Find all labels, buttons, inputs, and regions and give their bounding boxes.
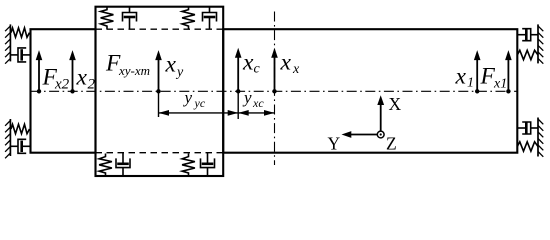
svg-text:Z: Z xyxy=(386,134,397,154)
svg-text:X: X xyxy=(389,94,402,114)
svg-text:c: c xyxy=(254,62,261,77)
svg-text:2: 2 xyxy=(88,76,96,92)
svg-text:y: y xyxy=(183,88,193,107)
svg-text:x1: x1 xyxy=(493,77,507,92)
svg-text:y: y xyxy=(242,88,252,107)
svg-text:xc: xc xyxy=(252,96,264,110)
svg-text:1: 1 xyxy=(467,76,474,91)
svg-text:y: y xyxy=(175,65,184,80)
svg-text:x: x xyxy=(165,52,177,78)
svg-text:Y: Y xyxy=(328,134,341,154)
svg-text:x: x xyxy=(76,64,88,90)
svg-text:yc: yc xyxy=(194,96,206,110)
svg-text:x: x xyxy=(242,50,254,76)
svg-text:x: x xyxy=(280,50,292,76)
svg-text:x2: x2 xyxy=(54,76,70,92)
svg-text:x: x xyxy=(455,64,467,90)
svg-text:xy-xm: xy-xm xyxy=(118,63,150,78)
svg-text:x: x xyxy=(292,62,300,77)
